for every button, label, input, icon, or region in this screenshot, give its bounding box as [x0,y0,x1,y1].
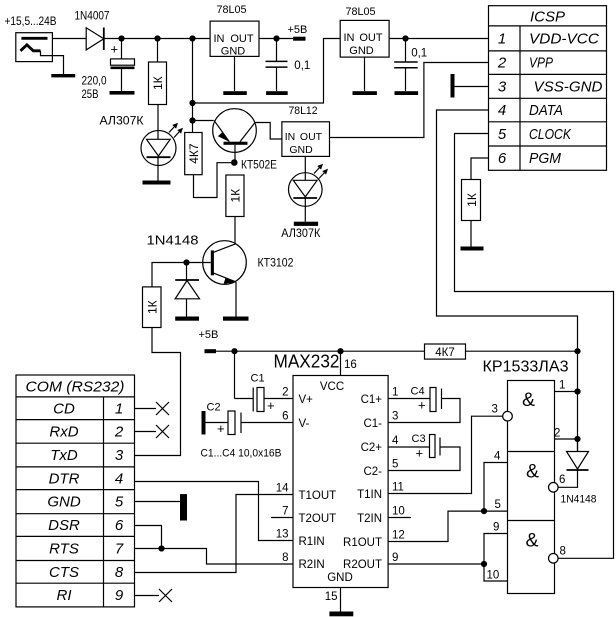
svg-text:1К: 1К [465,193,479,207]
resistor R2 4К7 [185,133,202,175]
svg-text:3: 3 [492,404,498,416]
net +5В stub [293,37,305,41]
svg-text:220,0: 220,0 [82,76,107,88]
ground [51,74,75,77]
wire gate1 pin1 [555,391,578,393]
pin 6 output bubble [549,483,559,493]
wire gnd pin [304,156,306,173]
svg-text:GND: GND [327,572,353,584]
wire RTS to R2IN [135,549,294,565]
node junction 78L05-2 feed [189,100,195,106]
wire gate1 pin2 [555,438,578,440]
capacitor 0,1 second [394,39,418,92]
wire feed column [192,39,194,133]
wire gate3 pin9 [484,534,508,565]
svg-text:+: + [416,446,424,461]
svg-text:PGM: PGM [529,150,561,167]
node junction R1 [154,35,160,41]
capacitor 0,1 first [266,39,288,92]
svg-text:6: 6 [115,517,124,534]
svg-text:C4: C4 [411,386,425,398]
ground [266,91,288,95]
svg-text:+5В: +5В [288,24,308,36]
svg-text:КТ502Е: КТ502Е [241,158,277,172]
svg-text:5: 5 [495,499,501,511]
wire out [259,38,293,40]
wire CD no-connect [135,402,170,415]
IC DD1 MAX232 [293,376,388,588]
wire gate2 pin4 [484,463,508,512]
node junction C1 tap [231,348,237,354]
resistor R1 1К [149,39,167,105]
svg-text:3: 3 [392,411,398,423]
svg-text:+: + [111,42,119,57]
svg-text:GND: GND [47,494,81,511]
svg-text:КР1533ЛА3: КР1533ЛА3 [483,359,569,376]
svg-text:8: 8 [115,564,124,581]
svg-text:R2IN: R2IN [299,559,325,571]
svg-text:1К: 1К [145,300,159,314]
svg-text:6: 6 [559,474,565,486]
svg-text:VDD-VCC: VDD-VCC [529,31,599,48]
svg-text:VSS-GND: VSS-GND [534,79,603,96]
ground [175,317,199,321]
power jack XS1 [16,33,64,74]
svg-text:13: 13 [276,529,289,541]
connector COM (RS232) table [16,375,135,607]
svg-text:25В: 25В [82,89,99,101]
svg-text:6: 6 [498,150,507,167]
capacitor C2 [202,411,294,436]
svg-text:9: 9 [115,587,124,604]
transistor Q1 КТ502Е [213,109,257,163]
svg-text:TxD: TxD [50,447,78,464]
svg-text:5: 5 [392,459,398,471]
wire CLOCK net [455,134,614,559]
svg-text:T1IN: T1IN [357,489,382,501]
wire gate3 pin10 [484,564,508,581]
wire to second 78L05 [193,39,341,104]
label 220,0 25В [82,76,107,102]
resistor R5 1К [462,180,481,221]
svg-text:+5В: +5В [199,329,219,341]
ground [223,317,249,321]
svg-text:78L05: 78L05 [217,4,247,16]
svg-text:1N4148: 1N4148 [147,234,199,248]
svg-text:C1...C4 10,0x16В: C1...C4 10,0x16В [201,448,282,460]
svg-text:C1: C1 [251,373,265,385]
svg-text:+: + [217,421,225,436]
svg-text:КТ3102: КТ3102 [258,256,294,270]
svg-text:CD: CD [53,401,75,418]
svg-text:DSR: DSR [48,517,80,534]
resistor R4 1К [143,287,162,328]
svg-text:2: 2 [114,424,124,441]
svg-text:4К7: 4К7 [435,347,455,359]
pin 3 output bubble [503,411,513,421]
ground [353,91,377,95]
svg-text:1: 1 [115,401,123,418]
svg-text:OUT: OUT [359,32,383,44]
LED HL1 АЛ307К [141,123,183,181]
svg-text:16: 16 [344,359,357,371]
ground [180,494,187,520]
node junction pin1 [574,388,580,394]
svg-text:+15,5...24В: +15,5...24В [5,16,57,28]
ground [294,222,318,226]
svg-text:T2OUT: T2OUT [299,513,337,525]
svg-text:0,1: 0,1 [294,60,310,72]
svg-text:V-: V- [299,418,310,430]
svg-text:4К7: 4К7 [187,143,201,164]
wire GND pin5 [135,501,181,503]
svg-text:&: & [522,389,535,411]
svg-text:V+: V+ [299,394,314,406]
ground [223,91,247,95]
wire out to ICSP pin1 [389,38,488,40]
resistor R3 1К [226,175,244,217]
node junction pin2 [574,436,580,442]
svg-text:4: 4 [498,102,506,119]
svg-text:9: 9 [392,552,398,564]
svg-text:CTS: CTS [49,564,79,581]
ground [461,247,484,251]
wire RxD no-connect [135,425,170,438]
svg-text:C1-: C1- [363,418,382,430]
wire T2IN stub pin10 [388,517,411,519]
ground [329,612,353,617]
node junction DSR-RTS [158,545,164,551]
svg-text:T2IN: T2IN [357,513,382,525]
svg-text:C2-: C2- [363,466,382,478]
wire PGM [471,158,489,180]
svg-text:GND: GND [221,46,246,58]
svg-text:5: 5 [115,494,124,511]
wire T2OUT stub pin7 [271,517,293,519]
svg-text:5: 5 [498,126,507,143]
wire [234,56,236,91]
wire CTS to T1OUT [135,495,294,573]
resistor R6 4К7 [425,344,466,359]
svg-text:R1IN: R1IN [299,536,325,548]
ground [110,91,135,95]
svg-text:DTR: DTR [49,471,80,488]
svg-text:ICSP: ICSP [530,9,565,26]
svg-text:C2+: C2+ [361,442,383,454]
node junction 0,1 cap 2 [402,35,408,41]
svg-text:4: 4 [392,435,399,447]
capacitor C 220,0 25В [111,39,135,92]
wire VCC pin16 [340,351,342,375]
capacitor C3 [388,435,460,471]
svg-text:DATA: DATA [529,102,563,119]
wire RI no-connect [135,589,173,602]
wire pin6 to diode [558,470,577,487]
capacitor C1 [235,351,294,413]
svg-text:T1OUT: T1OUT [299,490,337,502]
node junction base KT3102 [183,259,189,265]
svg-text:C1+: C1+ [361,394,383,406]
svg-text:1N4148: 1N4148 [561,494,597,506]
regulator DA3 78L12 [282,122,330,157]
svg-text:1К: 1К [229,189,243,203]
svg-text:&: & [526,461,539,483]
node junction KT502E emitter [189,117,195,123]
regulator DA1 78L05 [210,21,259,57]
wire DSR [135,526,162,549]
node junction feed [189,35,195,41]
wire [193,120,214,122]
svg-text:MAX232: MAX232 [274,352,340,372]
regulator DA2 78L05 [340,20,389,57]
svg-text:IN: IN [285,131,296,143]
svg-text:GND: GND [349,45,374,57]
svg-text:8: 8 [560,546,566,558]
svg-text:1: 1 [392,387,398,399]
node junction base [231,159,238,166]
svg-text:VPP: VPP [529,55,553,72]
svg-text:15: 15 [325,591,338,603]
svg-text:4: 4 [115,471,123,488]
wire [157,105,159,131]
wire [364,57,366,91]
svg-text:4: 4 [494,451,501,463]
wire VPP out to ICSP pin2 [330,63,489,138]
svg-text:14: 14 [276,483,289,495]
svg-text:1: 1 [559,380,565,392]
svg-text:OUT: OUT [300,131,323,143]
svg-text:COM (RS232): COM (RS232) [26,379,125,396]
svg-text:2: 2 [497,55,507,72]
svg-text:12: 12 [392,530,405,542]
svg-text:C3: C3 [412,433,426,445]
node junction 0,1 cap [273,35,279,41]
wire DATA net [437,110,578,452]
svg-text:0,1: 0,1 [411,48,427,60]
svg-text:7: 7 [282,506,288,518]
svg-text:C2: C2 [207,402,221,414]
svg-text:RTS: RTS [49,541,79,558]
svg-text:IN: IN [344,32,355,44]
transistor Q2 КТ3102 [187,241,247,317]
svg-text:78L12: 78L12 [289,105,318,117]
wire R4 to TxD [135,328,181,456]
svg-text:10: 10 [487,570,500,582]
wire VSS [455,86,489,88]
wire gate2 pin5 [484,510,508,512]
IC DD2 КР1533ЛА3 [508,381,555,594]
connector ICSP table [489,6,607,171]
svg-text:RI: RI [57,587,72,604]
capacitor C4 [388,388,460,423]
svg-text:R1OUT: R1OUT [343,537,382,549]
diode VD3 1N4148 [567,439,589,470]
node junction pins 9-10 [481,561,487,567]
svg-text:7: 7 [115,541,124,558]
svg-text:VCC: VCC [320,381,344,393]
svg-text:R2OUT: R2OUT [343,559,382,571]
wire 4К7 to DATA node [466,350,578,352]
wire R2OUT pin9 to gate3 inputs [388,563,484,565]
wire [470,221,472,247]
wire T1IN pin11 to gate1 output [388,416,503,493]
pin 8 output bubble [549,554,559,564]
svg-text:9: 9 [493,522,499,534]
svg-text:+: + [418,398,426,413]
node junction C [118,35,124,41]
wire DTR to R1IN [135,482,294,541]
svg-text:2: 2 [282,387,288,399]
wire base node to R4 [152,263,187,287]
wire [52,38,86,40]
wire main rail [104,38,210,40]
svg-text:3: 3 [498,79,507,96]
node junction pins 4-5 [481,508,487,514]
svg-text:RxD: RxD [49,424,78,441]
diode VD2 1N4148 [175,263,199,317]
svg-text:6: 6 [282,411,288,423]
wire collector to 78L12 [255,123,282,140]
svg-text:CLOCK: CLOCK [529,126,572,143]
node junction DATA pull-up [574,348,580,354]
svg-text:OUT: OUT [230,33,254,45]
svg-text:1N4007: 1N4007 [75,11,110,23]
svg-text:АЛ307К: АЛ307К [100,114,144,128]
wire R1OUT pin12 to gate2 inputs [388,511,484,541]
wire +5В rail [216,350,425,352]
svg-text:&: & [525,530,538,552]
svg-text:1К: 1К [151,76,165,90]
ground [395,91,419,95]
diode VD1 1N4007 [86,28,104,51]
wire GND pin15 [340,588,342,612]
svg-text:1: 1 [498,31,506,48]
svg-text:8: 8 [282,552,288,564]
svg-text:АЛ307К: АЛ307К [281,226,320,240]
svg-text:GND: GND [289,144,313,156]
node junction VCC [337,348,343,354]
svg-text:+: + [267,398,275,413]
LED HL2 АЛ307К [289,164,329,222]
svg-text:2: 2 [554,428,560,440]
ground [143,181,171,185]
svg-text:78L05: 78L05 [346,6,376,18]
svg-text:11: 11 [392,482,404,494]
wire [234,217,236,244]
wire 4К7 to base node [194,163,232,198]
svg-text:IN: IN [214,33,225,45]
svg-text:10: 10 [392,506,405,518]
ground VSS bar [451,74,455,98]
svg-text:3: 3 [115,447,124,464]
net +5В stub MAX232 [205,349,217,353]
